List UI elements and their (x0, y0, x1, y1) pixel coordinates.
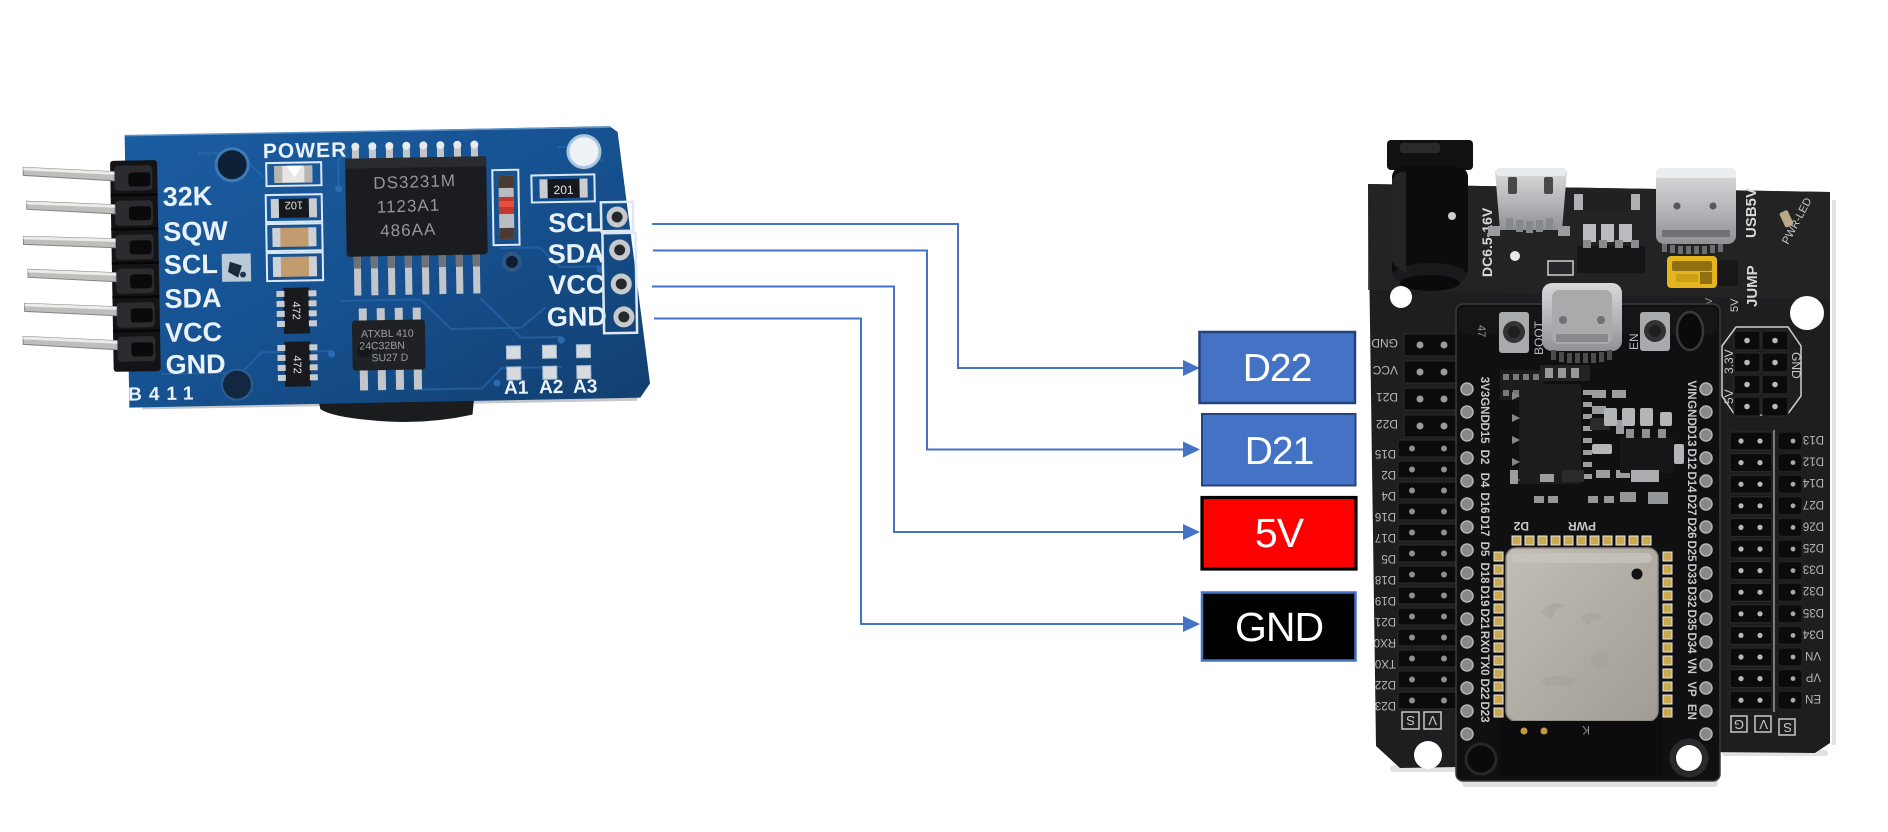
svg-text:G: G (1734, 717, 1744, 732)
left header labels top block (1371, 336, 1398, 431)
right header block (1730, 430, 1824, 712)
svg-text:D2: D2 (1478, 450, 1490, 465)
wire SCL to D22 (652, 224, 1186, 368)
svg-text:RX0: RX0 (1374, 636, 1396, 648)
svg-text:32K: 32K (162, 181, 213, 212)
carrier board (1368, 184, 1830, 768)
svg-text:D2: D2 (1513, 519, 1529, 533)
wire SDA to D21 (653, 251, 1186, 450)
svg-text:SCL: SCL (548, 207, 603, 238)
svg-text:EN: EN (1627, 333, 1641, 350)
svg-text:A2: A2 (539, 377, 564, 398)
svg-text:D33: D33 (1803, 563, 1824, 575)
svg-text:D5: D5 (1478, 542, 1490, 557)
label box D21 (1202, 414, 1356, 486)
inner pin circles left column (1461, 383, 1473, 740)
regulator IC (1577, 246, 1645, 273)
left header top block sockets (1404, 334, 1458, 437)
svg-text:DC6.5-16V: DC6.5-16V (1479, 207, 1495, 277)
pads A1 A2 A3 (506, 345, 591, 380)
svg-text:D21: D21 (1245, 430, 1314, 473)
svg-text:JUMP: JUMP (1744, 265, 1761, 307)
svg-text:D14: D14 (1685, 471, 1697, 493)
shield side pads right (1663, 552, 1672, 717)
svg-text:GND: GND (165, 349, 226, 380)
svg-text:D34: D34 (1802, 627, 1824, 639)
svg-text:1123A1: 1123A1 (376, 196, 440, 217)
screw dot (1448, 212, 1456, 220)
svg-text:472: 472 (290, 355, 302, 374)
svg-text:5V: 5V (1255, 510, 1305, 556)
mounting hole bottom-left (1414, 741, 1442, 769)
DC jack J1 (1387, 140, 1473, 291)
board shadow (1390, 200, 1836, 787)
capacitor C1 (266, 223, 322, 251)
middle components cluster (1500, 365, 1684, 533)
svg-text:D22: D22 (1376, 417, 1398, 431)
svg-text:SU27 D: SU27 D (371, 352, 408, 365)
module DS3231 board (125, 126, 651, 408)
svg-text:D27: D27 (1685, 494, 1697, 515)
resistor R2 201 (531, 174, 594, 202)
pcb traces (133, 141, 607, 394)
USB-C J3 (1656, 168, 1736, 254)
module bottom-right hole (1676, 745, 1702, 771)
svg-text:D33: D33 (1685, 563, 1697, 584)
main SoC IC (1519, 384, 1581, 484)
svg-text:GND: GND (1478, 397, 1490, 423)
mounting hole right (1790, 296, 1824, 330)
white LED dot (1510, 251, 1520, 261)
svg-text:USB5V: USB5V (1743, 188, 1760, 238)
svg-text:D13: D13 (1685, 425, 1697, 446)
svg-text:SDA: SDA (164, 283, 222, 314)
mounting hole bottom-left (222, 369, 253, 400)
svg-text:V: V (1428, 713, 1437, 728)
svg-text:47: 47 (1475, 325, 1487, 337)
svg-text:D17: D17 (1375, 531, 1396, 543)
svg-text:GND: GND (1371, 336, 1398, 350)
svg-text:24C32BN: 24C32BN (359, 340, 405, 353)
pin hole GND (613, 306, 634, 327)
pin hole SDA (609, 239, 630, 260)
pin hole VCC (611, 273, 632, 294)
svg-text:VCC: VCC (165, 317, 223, 348)
svg-text:D25: D25 (1803, 541, 1824, 553)
carrier board subtle sheen (1368, 184, 1830, 300)
svg-text:D18: D18 (1478, 562, 1490, 584)
header P1 black plastic (110, 160, 161, 372)
svg-text:D32: D32 (1803, 584, 1824, 596)
svg-text:D22: D22 (1375, 678, 1396, 690)
svg-text:3.3V: 3.3V (1722, 349, 1736, 374)
right pin name column (1685, 380, 1697, 720)
svg-text:TX0: TX0 (1478, 654, 1490, 675)
svg-text:ATXBL 410: ATXBL 410 (361, 328, 414, 341)
battery holder under board (142, 390, 637, 410)
jumper cap (yellow) (1667, 256, 1738, 288)
module bottom-left dark hole (1466, 744, 1496, 774)
svg-text:5V: 5V (1729, 298, 1741, 312)
label box D22 (1200, 332, 1356, 403)
svg-text:DS3231M: DS3231M (373, 171, 456, 193)
svg-text:D5: D5 (1381, 552, 1396, 564)
svg-text:D21: D21 (1375, 615, 1396, 627)
header pins (silver) (20, 166, 117, 352)
BOOT button (1499, 312, 1529, 353)
wire VCC to 5V (652, 287, 1186, 533)
svg-text:D4: D4 (1381, 489, 1396, 501)
arrowhead 5V (1183, 524, 1200, 540)
svg-text:D15: D15 (1478, 422, 1490, 444)
svg-text:486AA: 486AA (380, 220, 437, 241)
wire GND to GND (654, 319, 1186, 625)
svg-text:D21: D21 (1478, 608, 1490, 630)
svg-text:201: 201 (553, 183, 574, 197)
inner pin circles right column (1700, 383, 1712, 740)
silkscreen pin labels left (162, 181, 230, 380)
led chip (1779, 210, 1794, 228)
arrowhead D22 (1183, 360, 1200, 376)
svg-text:K: K (1582, 723, 1590, 737)
svg-text:D19: D19 (1375, 594, 1396, 606)
svg-text:D13: D13 (1803, 433, 1824, 445)
svg-text:TX0: TX0 (1375, 657, 1396, 669)
diode D2 with red band (492, 170, 519, 245)
solder flux pad (222, 253, 251, 282)
dark coil (1677, 312, 1703, 350)
svg-text:S: S (1406, 713, 1415, 728)
svg-text:D12: D12 (1803, 455, 1824, 467)
svg-text:SCL: SCL (164, 249, 219, 280)
svg-text:SQW: SQW (163, 216, 229, 247)
svg-text:3V3: 3V3 (1478, 377, 1490, 397)
svg-text:D26: D26 (1685, 517, 1697, 538)
svg-text:D2: D2 (1381, 468, 1396, 480)
svg-text:D23: D23 (1375, 699, 1396, 711)
svg-text:472: 472 (290, 301, 302, 320)
svg-text:D4: D4 (1478, 473, 1490, 488)
svg-text:B411: B411 (128, 383, 201, 405)
svg-text:EN: EN (1805, 692, 1821, 704)
svg-text:RX0: RX0 (1478, 631, 1490, 653)
G V S boxes right (1731, 716, 1795, 735)
more tiny parts near pwr (1534, 492, 1668, 504)
arrowhead D21 (1183, 442, 1200, 458)
svg-text:D15: D15 (1375, 447, 1396, 459)
via hole (502, 252, 522, 272)
svg-text:PWR: PWR (1568, 519, 1596, 533)
LED D1 (266, 162, 321, 186)
svg-text:EN: EN (1685, 704, 1697, 720)
pin hole SCL (606, 206, 627, 227)
mounting hole left (1390, 286, 1412, 308)
mounting hole top-right (568, 135, 601, 168)
svg-text:VP: VP (1805, 671, 1821, 683)
svg-text:POWER: POWER (263, 139, 348, 163)
small inductor (1574, 192, 1640, 212)
right edge socket strip (1778, 432, 1802, 709)
svg-text:GND: GND (547, 301, 608, 332)
svg-text:V: V (1759, 717, 1768, 732)
IC U1 DS3231 (345, 140, 489, 295)
three caps row (1583, 224, 1632, 242)
label box 5V (1202, 498, 1356, 570)
svg-text:5V: 5V (1722, 389, 1736, 404)
svg-text:VCC: VCC (548, 269, 606, 300)
svg-text:D35: D35 (1803, 606, 1824, 618)
left header main block labels (1374, 447, 1396, 711)
svg-text:D17: D17 (1478, 515, 1490, 536)
right labels column (1802, 433, 1824, 704)
micro USB J2 (1488, 168, 1570, 236)
svg-text:D32: D32 (1685, 586, 1697, 607)
right power octagon (1722, 327, 1803, 416)
svg-text:D16: D16 (1478, 492, 1490, 513)
svg-text:A1: A1 (504, 378, 529, 399)
svg-text:D21: D21 (1376, 390, 1398, 404)
svg-text:A3: A3 (573, 376, 598, 397)
svg-text:D22: D22 (1478, 678, 1490, 699)
svg-text:D14: D14 (1802, 476, 1824, 488)
svg-text:D23: D23 (1478, 701, 1490, 722)
resistor R1 102 (266, 194, 322, 222)
board edge highlight (125, 127, 611, 135)
svg-text:S: S (1783, 720, 1792, 735)
svg-text:VN: VN (1805, 649, 1821, 661)
S V boxes left (1402, 712, 1441, 729)
module USB-C (1542, 283, 1622, 363)
shield side pads left (1494, 552, 1503, 717)
svg-text:SDA: SDA (547, 238, 605, 269)
resistor network RN2 472 (277, 341, 318, 387)
svg-text:VN: VN (1685, 658, 1697, 674)
svg-text:D34: D34 (1685, 632, 1697, 654)
svg-text:D27: D27 (1803, 498, 1824, 510)
RF shield (1506, 548, 1658, 721)
capacitor C2 (267, 252, 323, 281)
mounting hole top-left (216, 148, 249, 181)
shield solder pads top row (1512, 536, 1651, 545)
svg-text:D35: D35 (1685, 609, 1697, 631)
svg-text:GND: GND (1685, 400, 1697, 426)
label box GND (1202, 593, 1356, 661)
svg-text:102: 102 (285, 199, 304, 211)
ESP32 dev module (inner board) (1456, 283, 1720, 781)
arrowhead GND (1183, 616, 1200, 632)
EN button (1640, 312, 1670, 351)
svg-text:GND: GND (1235, 604, 1323, 650)
svg-text:D18: D18 (1375, 573, 1396, 585)
small passives (1510, 390, 1630, 484)
IC U2 AT24C32 EEPROM (352, 307, 426, 390)
svg-text:GND: GND (1789, 352, 1803, 379)
svg-text:D19: D19 (1478, 585, 1490, 606)
antenna area (1500, 721, 1663, 776)
svg-text:VP: VP (1685, 681, 1697, 697)
silkscreen right pin labels (545, 207, 607, 332)
SOT-223 regulator (1620, 437, 1674, 473)
right pin hole boxes (601, 202, 634, 232)
resistor network RN1 472 (276, 287, 317, 334)
svg-text:D25: D25 (1685, 540, 1697, 562)
svg-text:D16: D16 (1375, 510, 1396, 522)
silver caps row (1592, 408, 1684, 464)
left pin name column (1478, 377, 1490, 723)
svg-text:D26: D26 (1803, 519, 1824, 531)
left header main block sockets (1398, 440, 1460, 709)
svg-text:D12: D12 (1685, 448, 1697, 469)
svg-text:VCC: VCC (1372, 363, 1398, 377)
svg-text:D22: D22 (1243, 347, 1312, 390)
svg-text:VIN: VIN (1685, 380, 1697, 399)
small outlined part (1548, 261, 1573, 275)
